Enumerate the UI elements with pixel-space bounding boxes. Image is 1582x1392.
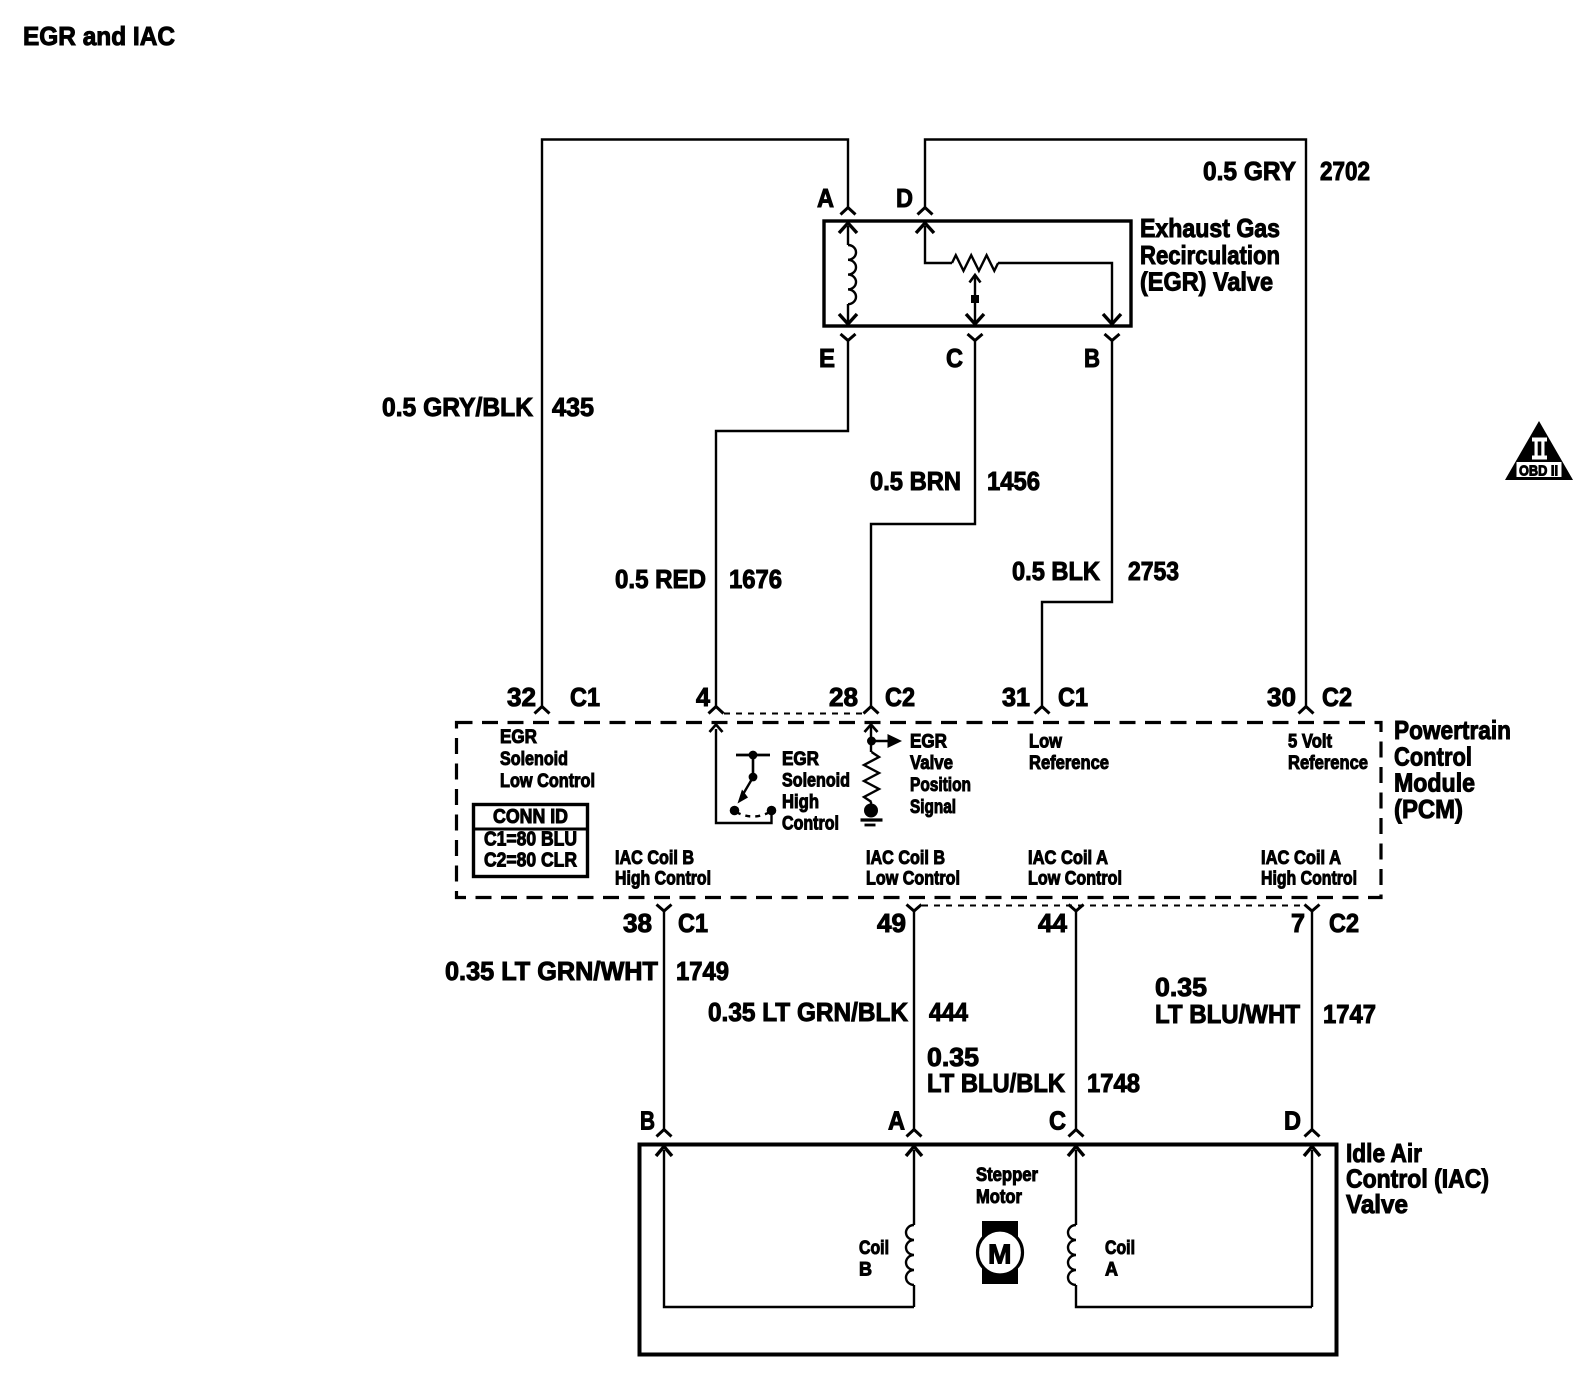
svg-text:C2: C2 [1322,682,1352,712]
svg-text:2753: 2753 [1128,556,1179,586]
label Low Reference [1029,732,1109,775]
label wire 2753 [1012,556,1179,586]
svg-text:0.5 RED: 0.5 RED [615,564,706,594]
label IAC Coil B High Control [615,848,711,890]
svg-text:4: 4 [696,682,711,712]
wire 2702 0.5 GRY : EGR pin D to PCM pin 30 [925,140,1306,707]
svg-text:Stepper: Stepper [976,1165,1039,1186]
label wire 2702 [1203,156,1370,186]
svg-text:IAC Coil A: IAC Coil A [1028,848,1108,869]
svg-text:M: M [988,1239,1012,1270]
wire 2753 0.5 BLK : EGR pin B to PCM pin 31 [1042,341,1112,707]
label Powertrain Control Module (PCM) [1394,715,1511,824]
label wire 1748 [927,1042,1140,1098]
svg-text:A: A [888,1106,905,1136]
svg-text:1676: 1676 [729,564,782,594]
svg-text:1747: 1747 [1323,999,1376,1029]
svg-text:435: 435 [552,392,594,422]
wire 1748 0.35 LT BLU/BLK : PCM pin 44 to IAC pin C [1075,911,1077,1129]
PCM pin 30 C2 [1267,682,1352,714]
svg-text:C1=80 BLU: C1=80 BLU [484,829,577,851]
PCM pin 7 C2 [1291,905,1359,939]
svg-text:1456: 1456 [987,466,1040,496]
EGR position sensor resistor [916,223,1121,324]
svg-text:Control: Control [782,814,839,835]
EGR pin A [817,183,856,215]
svg-text:LT BLU/BLK: LT BLU/BLK [927,1068,1065,1098]
stepper motor M [978,1221,1023,1284]
label EGR Valve Position Signal [910,732,971,819]
svg-text:49: 49 [877,908,906,938]
svg-text:Position: Position [910,775,971,796]
EGR solenoid high control driver switch [710,725,777,824]
PCM pin 38 C1 [623,905,708,939]
EGR pin E [819,334,856,373]
IAC pin A [888,1106,922,1137]
svg-text:E: E [819,343,835,373]
PCM pin 32 C1 [507,682,600,714]
svg-text:B: B [859,1260,872,1281]
svg-text:LT BLU/WHT: LT BLU/WHT [1155,999,1300,1029]
svg-text:(EGR) Valve: (EGR) Valve [1140,267,1273,297]
title "EGR and IAC" [23,21,175,51]
label Coil A [1105,1238,1135,1281]
svg-text:2702: 2702 [1320,156,1370,186]
svg-text:IAC Coil B: IAC Coil B [866,848,945,869]
svg-text:High: High [782,792,819,813]
svg-text:Low Control: Low Control [1028,869,1122,890]
svg-text:C2: C2 [1329,908,1359,938]
label wire 1456 [870,466,1040,496]
label wire 444 [708,997,968,1027]
svg-text:Low Control: Low Control [866,869,960,890]
svg-text:Reference: Reference [1029,753,1109,774]
label wire 1676 [615,564,782,594]
svg-text:Low: Low [1029,732,1062,753]
svg-text:30: 30 [1267,682,1296,712]
svg-text:0.5 BRN: 0.5 BRN [870,466,961,496]
svg-text:High Control: High Control [615,869,711,890]
svg-text:5 Volt: 5 Volt [1288,732,1333,753]
svg-text:C2=80 CLR: C2=80 CLR [484,850,577,872]
svg-text:EGR: EGR [782,749,819,770]
svg-text:C: C [1049,1106,1066,1136]
svg-text:31: 31 [1002,682,1030,712]
PCM pin 28 C2 [829,682,915,714]
wire 1456 0.5 BRN : EGR pin C to PCM pin 28 [871,341,975,707]
svg-text:A: A [817,183,834,213]
svg-text:1749: 1749 [676,956,729,986]
svg-text:38: 38 [623,908,652,938]
EGR position sensor wiper [966,275,984,324]
svg-text:Coil: Coil [1105,1238,1135,1259]
svg-text:A: A [1105,1260,1118,1281]
label IAC Coil A High Control [1261,848,1357,890]
wire 1747 0.35 LT BLU/WHT : PCM pin 7 to IAC pin D [1311,911,1313,1129]
dashed connector line pins 4-28 [724,713,863,715]
label wire 1749 [445,956,729,986]
svg-text:444: 444 [929,997,968,1027]
IAC valve outline box [640,1145,1337,1355]
label Idle Air Control (IAC) Valve [1346,1138,1489,1219]
IAC coil B circuit wire [656,1147,914,1308]
svg-text:32: 32 [507,682,536,712]
label Coil B [859,1238,889,1281]
svg-text:Reference: Reference [1288,753,1368,774]
label EGR Solenoid High Control [782,749,850,835]
svg-text:High Control: High Control [1261,869,1357,890]
EGR valve position signal node [864,725,902,803]
label 5 Volt Reference [1288,732,1368,775]
svg-text:B: B [1084,343,1100,373]
svg-text:EGR: EGR [910,732,947,753]
svg-text:Coil: Coil [859,1238,889,1259]
svg-text:CONN ID: CONN ID [493,806,568,828]
svg-text:Solenoid: Solenoid [782,771,850,792]
CONN ID table [474,805,588,877]
PCM pin 4 [696,682,724,714]
IAC pin C [1049,1106,1084,1137]
EGR solenoid coil [839,223,857,324]
svg-text:0.5 GRY: 0.5 GRY [1203,156,1296,186]
dashed connector line pins 49-44-7 [922,905,1304,907]
wire 435 0.5 GRY/BLK : EGR pin A to PCM pin 32 [542,140,848,707]
EGR pin D [896,183,933,215]
svg-text:0.5 GRY/BLK: 0.5 GRY/BLK [382,392,533,422]
svg-text:28: 28 [829,682,858,712]
svg-text:(PCM): (PCM) [1394,794,1463,824]
PCM pin 44 [1038,905,1084,939]
svg-text:0.35: 0.35 [1155,972,1207,1002]
label Exhaust Gas Recirculation (EGR) Valve [1140,213,1280,297]
label Stepper Motor [976,1165,1039,1208]
svg-text:0.35 LT GRN/BLK: 0.35 LT GRN/BLK [708,997,908,1027]
svg-text:EGR: EGR [500,727,537,748]
PCM dashed box [457,723,1382,898]
svg-text:C1: C1 [570,682,600,712]
svg-text:Exhaust Gas: Exhaust Gas [1140,213,1280,243]
svg-text:OBD II: OBD II [1519,463,1558,480]
PCM pin 31 C1 [1002,682,1088,714]
wire 444 0.35 LT GRN/BLK : PCM pin 49 to IAC pin A [913,911,915,1129]
svg-text:C1: C1 [678,908,708,938]
svg-text:1748: 1748 [1087,1068,1140,1098]
label IAC Coil A Low Control [1028,848,1122,890]
svg-text:0.35 LT GRN/WHT: 0.35 LT GRN/WHT [445,956,658,986]
svg-text:IAC Coil B: IAC Coil B [615,848,694,869]
svg-text:Solenoid: Solenoid [500,749,568,770]
svg-text:C2: C2 [885,682,915,712]
svg-text:Valve: Valve [1346,1189,1408,1219]
IAC coil A circuit wire [1304,1147,1320,1308]
EGR valve outline box [824,221,1131,326]
svg-text:Valve: Valve [910,753,953,774]
label IAC Coil B Low Control [866,848,960,890]
OBD II symbol [1505,421,1573,480]
svg-text:Recirculation: Recirculation [1140,240,1280,270]
IAC coil A [1068,1147,1312,1308]
EGR pin C [946,334,983,373]
svg-text:0.5 BLK: 0.5 BLK [1012,556,1100,586]
svg-text:C: C [946,343,963,373]
wire 1749 0.35 LT GRN/WHT : PCM pin 38 to IAC pin B [663,911,665,1129]
svg-text:Motor: Motor [976,1187,1023,1208]
PCM pin 49 [877,905,922,939]
svg-text:D: D [896,183,913,213]
IAC coil B [906,1147,922,1308]
wire 1676 0.5 RED : EGR pin E to PCM pin 4 [716,341,848,707]
IAC pin B [640,1106,672,1137]
label wire 435 [382,392,594,422]
svg-text:Signal: Signal [910,797,956,818]
svg-text:Low Control: Low Control [500,771,595,792]
ground inside PCM [861,802,883,825]
svg-text:IAC Coil A: IAC Coil A [1261,848,1341,869]
svg-text:D: D [1284,1106,1301,1136]
svg-text:C1: C1 [1058,682,1088,712]
label EGR Solenoid Low Control [500,727,595,792]
svg-text:44: 44 [1038,908,1068,938]
svg-text:EGR and IAC: EGR and IAC [23,21,175,51]
IAC pin D [1284,1106,1320,1137]
EGR pin B [1084,334,1120,373]
svg-text:B: B [640,1106,655,1136]
svg-text:7: 7 [1291,908,1305,938]
label wire 1747 [1155,972,1376,1029]
